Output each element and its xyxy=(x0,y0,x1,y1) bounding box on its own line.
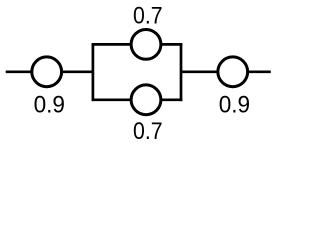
series-parallel reliability block diagram xyxy=(0,0,278,145)
wire: parallel box bottom rail xyxy=(92,98,183,101)
wire: left input lead through node to box left xyxy=(6,70,93,73)
wire: parallel box right vertical xyxy=(180,43,183,101)
svg-text:0.9: 0.9 xyxy=(219,93,250,119)
wire: parallel box top rail xyxy=(92,43,183,46)
wire: parallel box left vertical xyxy=(92,43,95,101)
svg-text:0.7: 0.7 xyxy=(133,4,163,30)
svg-text:0.7: 0.7 xyxy=(133,119,163,145)
component circle: right series unit (0.9) xyxy=(218,57,248,87)
wire: box right through node to output lead xyxy=(181,70,271,73)
component circle: top parallel unit (0.7) xyxy=(131,30,161,60)
svg-text:0.9: 0.9 xyxy=(34,93,65,119)
component circle: left series unit (0.9) xyxy=(32,57,62,87)
component circle: bottom parallel unit (0.7) xyxy=(131,85,161,115)
